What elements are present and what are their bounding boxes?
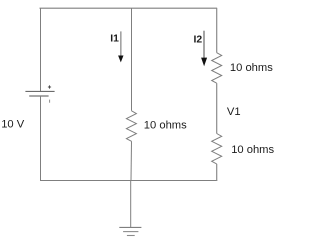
wire middle branch upper [131,8,133,111]
current arrow I2 [194,31,208,67]
wire left upper [40,8,42,91]
wire left lower [40,96,42,181]
wire top [40,7,218,9]
wire right lower [216,164,218,181]
wire right middle (node V1) [216,83,218,133]
svg-text:10 ohms: 10 ohms [230,62,273,74]
resistor R1 10 ohms (middle) [126,111,136,142]
current arrow I1 [110,31,123,62]
battery V 10V [25,85,54,102]
ground [119,181,141,236]
wire right upper [216,8,218,53]
svg-text:V1: V1 [227,106,241,118]
svg-text:I2: I2 [194,35,203,46]
svg-text:10 ohms: 10 ohms [231,144,274,156]
wire middle branch lower [130,141,133,180]
wire bottom [40,180,217,182]
svg-text:I1: I1 [110,33,119,44]
resistor R3 10 ohms (right bottom) [212,134,222,164]
svg-text:10 V: 10 V [1,119,25,131]
svg-text:10 ohms: 10 ohms [144,120,187,132]
resistor R2 10 ohms (right top) [212,53,222,83]
